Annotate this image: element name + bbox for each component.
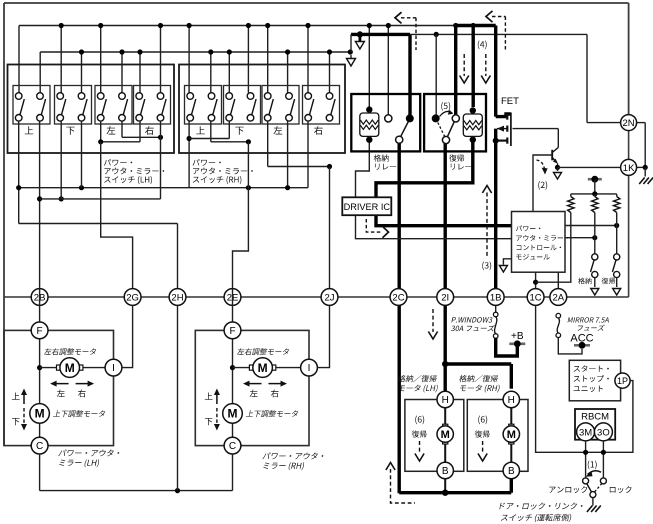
- node bus1 junction x=473.2: [471, 23, 476, 28]
- label storage relay 1: [374, 154, 389, 161]
- label up RH: [205, 393, 213, 400]
- label ud-motor LH: [53, 410, 105, 417]
- wire storage relay pivot down to motor bus: [398, 143, 401, 493]
- contact bottom 下1: [78, 115, 85, 122]
- connector 1B: [487, 289, 504, 306]
- wire LH tie1 up to right-left: [139, 121, 141, 142]
- arrow dashed down A: [463, 54, 465, 76]
- blade return relay dashed: [438, 123, 445, 137]
- wire return coil to module thick path: [376, 140, 512, 226]
- label right RH: [271, 390, 279, 398]
- wire down to RH motor H: [510, 364, 513, 389]
- label door lock 1: [499, 503, 582, 510]
- label module 3: [517, 245, 562, 251]
- box mirror switch RH: [179, 65, 345, 154]
- wire 1C net to resistor chain1: [536, 213, 571, 283]
- svg-text:H: H: [442, 395, 449, 406]
- arrow dashed top-left: [415, 18, 417, 50]
- contact top 上1: [37, 93, 44, 100]
- contact bottom 下1: [247, 115, 254, 122]
- contact bottom 左1: [286, 115, 293, 122]
- connector 2E: [224, 289, 241, 306]
- svg-text:M: M: [65, 361, 75, 375]
- wire common line y188: [19, 187, 308, 189]
- wire to lr-motor LH: [40, 367, 59, 369]
- node common 2H: [175, 488, 180, 493]
- label switch RH line1: [193, 159, 221, 166]
- wire pivot to ground: [592, 498, 594, 506]
- wire module to 2A: [557, 272, 559, 288]
- label mirror LH 1: [58, 450, 119, 457]
- svg-text:B: B: [442, 466, 449, 477]
- wire LH tie2 horizontal: [122, 136, 161, 138]
- label fuse2 line2: [578, 325, 605, 331]
- wire lr-motor to I LH: [81, 367, 113, 369]
- node bus2 junction x=210.8: [208, 49, 213, 54]
- terminal C LH: [31, 437, 48, 454]
- label door lock 2: [501, 514, 571, 522]
- wire bus2 drop x=81.5: [81, 52, 83, 93]
- wire right frame to 2N: [628, 3, 630, 115]
- node emitter junction: [555, 165, 560, 170]
- contact top 左1: [286, 93, 293, 100]
- node bus2 junction x=140: [137, 49, 142, 54]
- label (2): [538, 181, 547, 190]
- switch box 左: [262, 86, 299, 125]
- wire bus1 to storage relay NC contact: [387, 26, 389, 116]
- contact top 右0: [305, 93, 312, 100]
- wire C LH down: [39, 454, 41, 491]
- node thick feed junction: [357, 31, 363, 37]
- label motor LH 2: [399, 385, 438, 393]
- wire bus2 drop x=122: [121, 52, 123, 93]
- label fuse1 line1: [451, 317, 492, 323]
- switch blade 左1: [123, 99, 127, 115]
- wire 2H down to common bus: [177, 305, 179, 490]
- wire 2N right: [637, 122, 646, 124]
- fuse P.WINDOW3 30A: [493, 312, 498, 317]
- wire RH right-left down to common line: [307, 121, 309, 188]
- terminal I LH: [105, 359, 122, 376]
- node 2B net b: [59, 196, 64, 201]
- switch blade 下1: [83, 99, 87, 115]
- svg-text:B: B: [508, 466, 515, 477]
- wire 2J to I RH: [317, 305, 329, 367]
- switch blade 左0: [269, 99, 273, 115]
- svg-text:C: C: [36, 441, 43, 452]
- contact return-pos bottom: [614, 271, 620, 277]
- contact top 上1: [208, 93, 215, 100]
- node bus1 junction x=388.3: [386, 23, 391, 28]
- label return relay 1: [449, 154, 464, 161]
- node return coil bottom: [470, 137, 476, 143]
- connector 2A: [550, 289, 567, 306]
- contact storage NO: [406, 114, 414, 122]
- switch box 上: [185, 86, 222, 125]
- wire LH down-right to y188: [81, 121, 83, 188]
- connector 1P: [615, 373, 630, 388]
- switch blade 上1: [41, 99, 45, 115]
- svg-text:C: C: [229, 441, 236, 452]
- ground right: [639, 178, 645, 185]
- svg-text:3M: 3M: [579, 427, 592, 438]
- power +B terminal: [509, 342, 525, 345]
- label ssu 3: [574, 386, 603, 393]
- wire thin y34 to right: [410, 33, 587, 35]
- label switch LH line2: [104, 168, 164, 175]
- stub module left arrow: [503, 259, 511, 265]
- label down LH: [12, 418, 20, 425]
- node motor bus: [442, 490, 448, 496]
- label return RH: [475, 430, 490, 437]
- wire 2H feed horizontal: [19, 223, 178, 225]
- wire resistor top rail: [571, 193, 617, 195]
- node bus1 junction x=369.3: [367, 23, 372, 28]
- wire emitter down: [557, 164, 559, 168]
- wire F down LH: [39, 339, 41, 404]
- stub to connector arrow: [557, 167, 559, 171]
- svg-text:1C: 1C: [530, 292, 542, 303]
- label left LH: [57, 390, 65, 398]
- wire storage-pos to arrow: [594, 278, 596, 287]
- box power outer mirror (RH): [195, 330, 309, 445]
- label return pos: [602, 278, 616, 285]
- node y188 b: [79, 185, 84, 190]
- wire RH tie2 to 2E: [233, 142, 249, 289]
- wire RH left-left down: [267, 121, 269, 167]
- resistor R2: [592, 197, 598, 213]
- motor up-down LH: [30, 404, 50, 424]
- connector 2I: [437, 289, 454, 306]
- wire ud-motor to C RH: [232, 423, 234, 438]
- label right LH: [78, 390, 86, 398]
- node y188 d: [285, 185, 290, 190]
- box power outer mirror (LH): [4, 330, 114, 445]
- label lock: [610, 486, 632, 493]
- svg-text:M: M: [507, 429, 516, 441]
- node bus2 junction x=81.5: [79, 49, 84, 54]
- label 上: [196, 126, 205, 134]
- blade return-pos: [612, 260, 616, 272]
- wire riser thick feed to bus2 end: [350, 34, 352, 52]
- node LH tie: [37, 365, 42, 370]
- wire across switch feeds: [578, 451, 611, 453]
- wire left frame: [3, 3, 5, 446]
- resistor R3: [614, 197, 620, 213]
- wire bus2 horizontal: [40, 51, 350, 53]
- box mirror control module: [512, 212, 566, 273]
- wire bus2 drop x=140: [139, 52, 141, 93]
- blade door switch solid: [587, 484, 592, 492]
- wire bus1 drop RH x=189.1: [188, 26, 190, 93]
- node rail center: [592, 191, 597, 196]
- terminal F LH: [31, 322, 48, 339]
- svg-text:M: M: [35, 407, 45, 421]
- wire thick drop to storage relay NO contact: [408, 34, 411, 115]
- contact bottom 上1: [208, 115, 215, 122]
- power ACC terminal: [574, 344, 590, 347]
- svg-text:I: I: [308, 363, 311, 374]
- arrow dashed down (2I): [432, 309, 434, 332]
- contact top 右0: [136, 93, 143, 100]
- contact bottom 右1: [326, 115, 333, 122]
- svg-text:DRIVER IC: DRIVER IC: [344, 202, 391, 212]
- terminal C RH: [224, 437, 241, 454]
- blade door switch dashed: [595, 484, 602, 492]
- label storage relay 2: [375, 164, 396, 170]
- contact bottom 左1: [119, 115, 126, 122]
- wire LH left-right down: [121, 121, 123, 138]
- svg-text:2A: 2A: [552, 292, 564, 303]
- contact bottom 上1: [37, 115, 44, 122]
- terminal F RH: [224, 322, 241, 339]
- contact bottom 左0: [97, 115, 104, 122]
- svg-text:FET: FET: [501, 96, 519, 107]
- label motor RH 1: [459, 375, 498, 382]
- switch blade 上1: [213, 99, 217, 115]
- wire drop to 2N level: [586, 34, 588, 122]
- wire 1K down to connector row: [628, 176, 630, 297]
- contact return NC filled: [432, 114, 440, 122]
- contact top 下0: [57, 93, 64, 100]
- wire bus1 to storage relay coil: [368, 26, 370, 107]
- connector arrow F: [613, 289, 621, 296]
- wire RH tie1 horizontal: [189, 138, 229, 140]
- wire bus2 drop RH x=210.8: [210, 52, 212, 93]
- label (4): [478, 41, 487, 50]
- label (6) LH: [415, 416, 424, 425]
- wire ud-motor to C LH: [39, 423, 41, 438]
- contact storage NC: [385, 115, 392, 122]
- connector 2H: [169, 289, 186, 306]
- wire thick bus1 end down to FET drain: [494, 26, 497, 117]
- wire bus1 thick segment: [456, 24, 496, 27]
- arrow return RH: [482, 441, 484, 454]
- wire 2G to I LH: [122, 305, 133, 367]
- resistor R1: [568, 197, 574, 213]
- wire module to return-sense chain: [565, 225, 617, 227]
- svg-text:H: H: [508, 395, 515, 406]
- connector arrow C: [554, 173, 562, 180]
- wire RH tie2 horizontal: [211, 141, 249, 143]
- connector 2N: [621, 115, 637, 131]
- node RH tie2: [246, 139, 251, 144]
- wire module to 1C: [535, 272, 537, 288]
- switch box 下: [224, 86, 261, 125]
- node return-sense junction: [614, 223, 619, 228]
- label down RH: [205, 418, 213, 425]
- box RBCM: [575, 409, 615, 440]
- label 左: [107, 126, 116, 135]
- contact storage-pos bottom: [592, 271, 598, 277]
- connector 2C: [390, 289, 407, 306]
- wire LH up-left down to 2H net: [18, 121, 20, 224]
- contact top 下1: [78, 93, 85, 100]
- wire module to storage-sense chain: [565, 237, 595, 239]
- transistor collector lead: [552, 148, 558, 153]
- connector 3O: [594, 423, 612, 441]
- wire LH up-right down to 2B: [39, 121, 41, 289]
- FET source stub: [496, 140, 508, 142]
- wire return-pos to arrow: [616, 278, 618, 287]
- wire 1C down to unlock side: [536, 305, 578, 452]
- label ud-motor RH: [246, 410, 298, 417]
- contact top 左0: [97, 93, 104, 100]
- svg-text:I: I: [112, 363, 115, 374]
- wire LH left-left down: [100, 121, 102, 142]
- contact bottom 下0: [57, 115, 64, 122]
- node storage coil bottom: [366, 137, 372, 143]
- contact bottom 下0: [226, 115, 233, 122]
- wire motor ground bus: [399, 491, 511, 494]
- wire 3O down: [602, 441, 604, 478]
- connector 1C: [527, 289, 544, 306]
- contact unlock: [583, 478, 589, 484]
- switch blade 上0: [20, 99, 24, 115]
- switch blade 下0: [231, 99, 235, 115]
- contact return-pos top: [614, 254, 620, 260]
- node storage coil top: [366, 106, 372, 112]
- wire down to 2H: [177, 224, 179, 289]
- wire RH tie3 horizontal: [268, 166, 330, 168]
- wire R2 down to storage sw: [594, 213, 596, 254]
- coil storage relay: [368, 111, 370, 113]
- wire FET source down to 1B: [494, 129, 497, 297]
- arrow up LH: [23, 392, 25, 404]
- contact top 左1: [119, 93, 126, 100]
- label up LH: [12, 393, 20, 400]
- label 右: [314, 126, 323, 135]
- label (5): [441, 102, 450, 111]
- node motor feed split: [442, 361, 448, 367]
- FET body stub: [497, 128, 507, 130]
- wire lr-motor to I RH: [274, 367, 309, 369]
- wire 1P to door switch: [611, 381, 633, 453]
- ground door switch: [587, 506, 593, 513]
- wire emitter to 1K: [558, 166, 621, 168]
- node ground net: [643, 165, 648, 170]
- wire connector row line: [4, 296, 629, 298]
- node 2B net a: [37, 196, 42, 201]
- svg-text:RBCM: RBCM: [581, 412, 609, 423]
- wire 1B to fuse: [495, 297, 497, 312]
- motor up-down RH: [223, 404, 243, 424]
- connector 2G: [124, 289, 141, 306]
- wire bus1 horizontal: [19, 25, 456, 27]
- box return relay: [424, 94, 486, 151]
- FET body arrow: [497, 126, 504, 132]
- wire into 2N: [587, 122, 620, 124]
- contact top 上0: [15, 93, 22, 100]
- contact top 右1: [326, 93, 333, 100]
- wire bus2 left drop to SW-LH up-right: [39, 52, 41, 93]
- switch blade 右0: [310, 99, 314, 115]
- node RH tie3: [327, 164, 332, 169]
- motor left-right RH: [253, 358, 273, 378]
- node bus1 junction x=248.4: [246, 23, 251, 28]
- svg-text:3O: 3O: [597, 427, 610, 438]
- label (1): [588, 461, 597, 470]
- arrow right RH: [269, 383, 285, 385]
- wire thick drop to return relay coil: [472, 26, 475, 108]
- label (3): [482, 262, 491, 271]
- contact top 上0: [187, 93, 194, 100]
- label 左: [274, 126, 283, 135]
- switch box 上: [13, 86, 50, 125]
- wire DRIVER IC to module: [356, 215, 512, 239]
- wire RH left-right down to common: [287, 121, 289, 188]
- switch blade 下0: [62, 99, 66, 115]
- wire 2B net horizontal: [40, 198, 161, 200]
- arrow left LH: [53, 383, 69, 385]
- wire bus1 drop RH x=267.7: [267, 26, 269, 93]
- node bus1 junction x=100.7: [98, 23, 103, 28]
- motor left-right LH: [60, 358, 80, 378]
- node bus2 junction x=329.5: [327, 49, 332, 54]
- arrow left RH: [246, 383, 262, 385]
- FET channel segment y=128.6: [506, 126, 508, 132]
- switch blade 右0: [141, 99, 145, 115]
- node LH tie1: [98, 139, 103, 144]
- contact bottom 右1: [157, 115, 164, 122]
- fuse MIRROR 7.5A: [556, 313, 561, 318]
- label mirror RH 2: [263, 462, 304, 470]
- wire C RH down: [232, 454, 234, 491]
- svg-text:2I: 2I: [441, 292, 449, 303]
- wire 2N to ground net: [644, 123, 646, 168]
- contact lock: [600, 478, 606, 484]
- svg-text:+B: +B: [511, 331, 524, 342]
- blade return relay solid: [447, 122, 454, 137]
- svg-text:2N: 2N: [623, 118, 635, 129]
- arrow down LH: [23, 408, 25, 425]
- contact top 左0: [264, 93, 271, 100]
- arrow dashed bottom: [391, 469, 416, 503]
- wire 2x to F LH: [39, 289, 41, 331]
- contact bottom 左0: [264, 115, 271, 122]
- arrow dashed down B: [485, 54, 487, 76]
- wire RH up-right down: [210, 121, 212, 142]
- connector arrow E: [591, 289, 599, 296]
- wire RH up-left down to common: [188, 121, 190, 188]
- box mirror switch LH: [8, 65, 175, 154]
- arrow DRIVER IC dashed: [366, 219, 381, 232]
- FET gate bar: [510, 113, 512, 147]
- arrow return LH: [419, 441, 421, 454]
- svg-text:2C: 2C: [392, 292, 404, 303]
- label module 4: [516, 254, 549, 260]
- arrow relay actuation (5): [440, 111, 453, 116]
- arrow right LH: [76, 383, 92, 385]
- svg-text:2J: 2J: [324, 292, 334, 303]
- wire top frame: [4, 2, 629, 4]
- svg-text:1K: 1K: [623, 163, 635, 174]
- wire FET drain hook: [496, 114, 511, 117]
- wire stub bus2 end down: [350, 55, 352, 59]
- FET channel segment y=140.6: [506, 138, 508, 144]
- contact top 右1: [157, 93, 164, 100]
- contact storage-pos top: [592, 254, 598, 260]
- contact bottom 右0: [305, 115, 312, 122]
- wire RH B down: [510, 479, 513, 493]
- node 3O junction: [601, 450, 606, 455]
- box start stop unit: [569, 360, 620, 401]
- wire storage coil to DRIVER IC: [356, 142, 370, 199]
- label 上: [25, 126, 34, 134]
- wire 3M down: [585, 441, 587, 478]
- label fuse2 line1: [568, 317, 609, 322]
- wire motor feed to RH: [445, 362, 511, 365]
